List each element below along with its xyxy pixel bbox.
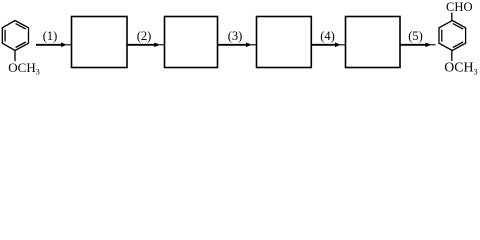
svg-text:(1): (1) (43, 29, 58, 43)
OCH3 label (product) (444, 60, 477, 77)
svg-text:(3): (3) (228, 29, 243, 43)
svg-text:(5): (5) (408, 29, 423, 43)
svg-text:OCH: OCH (8, 60, 35, 75)
svg-text:(2): (2) (137, 29, 152, 43)
box 1 (72, 17, 128, 68)
arrow (5) (401, 43, 436, 48)
bond CHO to product ring (451, 13, 453, 21)
double bond lower-right edge (453, 42, 463, 48)
svg-text:3: 3 (36, 68, 40, 76)
box 4 (346, 17, 401, 68)
arrow (1) (36, 43, 71, 48)
reactant benzene ring (anisole) (2, 21, 28, 51)
arrow (3) (218, 43, 256, 48)
box 2 (165, 17, 218, 68)
bond product ring to OCH3 (451, 51, 453, 62)
double bond left edge (441, 30, 443, 42)
svg-text:3: 3 (474, 68, 478, 76)
product benzene ring (p-methoxybenzaldehyde) (439, 21, 466, 51)
double bond lower-right edge (16, 42, 26, 48)
arrow (4) (312, 43, 346, 48)
double bond upper-right edge (16, 24, 26, 30)
arrow (2) (127, 43, 164, 48)
double bond upper-right edge (453, 24, 463, 30)
svg-text:CHO: CHO (446, 0, 473, 14)
svg-text:OCH: OCH (444, 60, 473, 75)
svg-text:(4): (4) (320, 29, 335, 43)
bond ring to OCH3 (14, 51, 16, 62)
double bond left edge (4, 30, 6, 42)
box 3 (257, 17, 312, 68)
OCH3 label (reactant) (8, 60, 39, 77)
